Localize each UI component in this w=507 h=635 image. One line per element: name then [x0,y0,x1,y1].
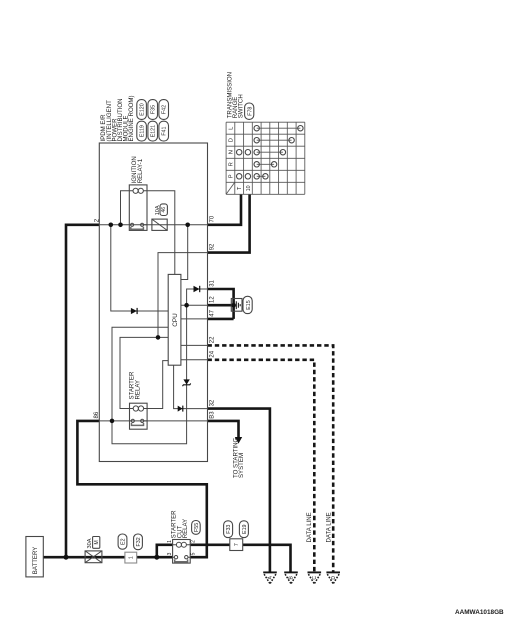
svg-text:P: P [229,174,235,178]
svg-text:46: 46 [161,207,167,213]
junction dot pin2 branch [109,223,114,228]
IPDM E/R box [99,143,207,462]
svg-text:C: C [312,576,318,580]
connector E121 [148,121,158,141]
battery [26,537,43,577]
svg-text:10: 10 [246,185,252,191]
starter cut relay pin 3 [167,552,173,555]
fusible link M 30A [85,537,102,563]
svg-text:DATA LINE: DATA LINE [306,512,313,542]
IPDM E/R title [100,95,135,141]
svg-text:E121: E121 [151,125,157,137]
wire CPU pin12 [181,304,208,306]
svg-text:ENGINE ROOM): ENGINE ROOM) [128,95,135,141]
svg-text:22: 22 [210,336,216,343]
wire splice to starter cut relay coil pin1 [157,545,173,557]
splice connector 7 [230,539,243,551]
svg-text:E2: E2 [121,538,127,545]
svg-text:70: 70 [210,215,216,222]
connector F35 [148,100,158,120]
pin 47 [210,309,216,316]
wire battery feed horizontal [43,556,172,559]
junction dot pin92 starter coil [156,335,161,340]
wire CPU pin24 [181,359,208,361]
junction dot fuse output [185,223,190,228]
starter relay [129,371,147,429]
drawing number AAMWA1018GB [455,609,504,616]
junction dot contact branch [110,419,115,424]
pin 32 [210,399,216,406]
wire IPDM pin 92 to range switch 10 [208,194,250,252]
svg-text:3: 3 [167,552,173,555]
ground triangle A [263,572,277,583]
connector F78 [245,103,254,119]
svg-text:F35: F35 [151,105,157,114]
transmission range switch title [226,72,244,118]
wire IPDM pin 70 to range switch T [208,194,242,225]
svg-text:SWITCH: SWITCH [238,94,245,118]
diode D1 to pin 31 [194,286,200,292]
svg-text:AAMWA1018GB: AAMWA1018GB [455,609,504,616]
connector F32 [134,534,143,550]
wire starter cut relay coil pin2 to connector 7 to ground B [190,545,290,572]
junction dot battery riser [64,555,69,560]
svg-text:F42: F42 [162,105,168,114]
wire pin 92 to CPU and starter relay coil [120,253,208,409]
svg-text:E15: E15 [246,300,252,309]
pin B3 [210,411,216,419]
svg-text:31: 31 [210,279,216,286]
wire battery to pin 2 riser [66,225,99,557]
wire CAN dashed pin 22 to ground D [208,345,334,571]
wire CAN dashed pin 24 to ground C [208,360,315,572]
junction dot pin12 zener [184,303,189,308]
svg-text:7: 7 [234,543,240,546]
starter cut relay pin 5 [191,552,197,555]
fuse 46 10A [152,204,168,231]
svg-text:F78: F78 [247,107,253,116]
svg-text:RELAY: RELAY [182,519,189,539]
table contact rows [237,126,304,180]
pin 12 [210,296,216,303]
svg-text:B3: B3 [210,411,216,419]
DATA LINE label D [326,512,333,542]
svg-text:F33: F33 [226,525,232,534]
connector F55 [192,521,201,535]
transmission range switch table [226,122,305,194]
pin 92 [210,243,216,250]
svg-text:SYSTEM: SYSTEM [238,453,245,478]
wire pin B3 to starting system [208,421,239,437]
svg-text:F55: F55 [194,523,200,532]
svg-text:E119: E119 [140,125,146,137]
starter cut relay pin 1 [167,540,173,543]
svg-text:M: M [94,540,100,544]
wire pin 12 to E15 [208,304,234,307]
wire CPU pin22 [181,344,208,346]
wire starter relay coil right to CPU left [147,361,168,409]
svg-text:47: 47 [210,309,216,316]
pin 86 [94,411,100,418]
pin 31 [210,279,216,286]
ignition relay IGNITION RELAY-1 [129,156,147,230]
wire pin 47 to E15 junction [208,318,234,321]
connector E120 [137,100,147,120]
svg-text:1: 1 [167,540,173,543]
pin 24 [210,350,216,357]
connector F33 [224,521,233,538]
wire ignition coil left branch [121,191,130,225]
svg-text:BATTERY: BATTERY [32,547,39,575]
svg-text:E120: E120 [140,103,146,115]
ground triangle C [308,572,322,583]
starter cut relay [171,510,191,563]
wire pin 86 contact circuit [99,420,207,422]
wire CPU pin47 [181,318,208,320]
svg-text:12: 12 [210,296,216,303]
svg-text:R: R [229,162,235,166]
ground triangle D [326,572,340,583]
arrow to starting system [232,437,245,478]
wire pin 31 to E15 junction [208,289,234,319]
svg-text:1: 1 [128,556,134,559]
ground triangle B [284,572,298,583]
wire ignition coil right to CPU top [147,191,175,275]
svg-text:92: 92 [210,243,216,250]
wire starter cut relay contact pin5 to IPDM pin 86 [77,421,206,557]
svg-text:30A: 30A [87,538,93,548]
connector F41 [159,121,169,141]
svg-text:F32: F32 [136,537,142,546]
wire fuse output to CPU right [181,225,188,280]
svg-text:DATA LINE: DATA LINE [326,512,333,542]
diode D4 to pin 32 [178,406,183,412]
junction dot relay coil branch [154,555,159,560]
DATA LINE label C [306,512,313,542]
wire zener branch to contact junction [112,305,187,444]
pin 22 [210,336,216,343]
svg-text:86: 86 [94,411,100,418]
wire contact branch to CPU left [112,327,168,421]
wire CPU bottom to pin 32 [174,365,208,408]
table row labels [229,126,252,191]
svg-text:32: 32 [210,399,216,406]
svg-text:F41: F41 [162,126,168,135]
ground symbol E15 [231,296,252,313]
svg-text:CPU: CPU [172,313,179,327]
connector F42 [159,100,169,120]
pin 2 [95,218,101,222]
diode D2 battery sense to CPU [131,308,137,314]
zener diode D3 [183,379,191,386]
connector E2 [118,534,127,549]
connector E119 [137,121,147,141]
pin 70 [210,215,216,222]
wire pin31 diode branch [187,289,208,305]
wire pin2 branch diode to CPU left [111,225,168,311]
svg-text:N: N [229,150,235,154]
starter cut relay pin 2 [191,540,197,543]
junction dot ignition coil branch [118,223,123,228]
svg-text:D: D [229,138,235,142]
splice connector 1 [125,552,137,563]
connector E19 [239,521,248,538]
CPU U1 [168,274,181,365]
svg-text:RELAY: RELAY [134,380,141,400]
svg-text:D: D [331,576,337,580]
svg-text:5: 5 [191,552,197,555]
svg-text:E19: E19 [242,524,248,533]
wire pin 32 to ground A [208,409,270,572]
svg-text:2: 2 [191,540,197,543]
wire main feed pin2 to pin70 [99,224,207,226]
svg-text:RELAY-1: RELAY-1 [137,158,144,183]
svg-text:24: 24 [210,350,216,357]
